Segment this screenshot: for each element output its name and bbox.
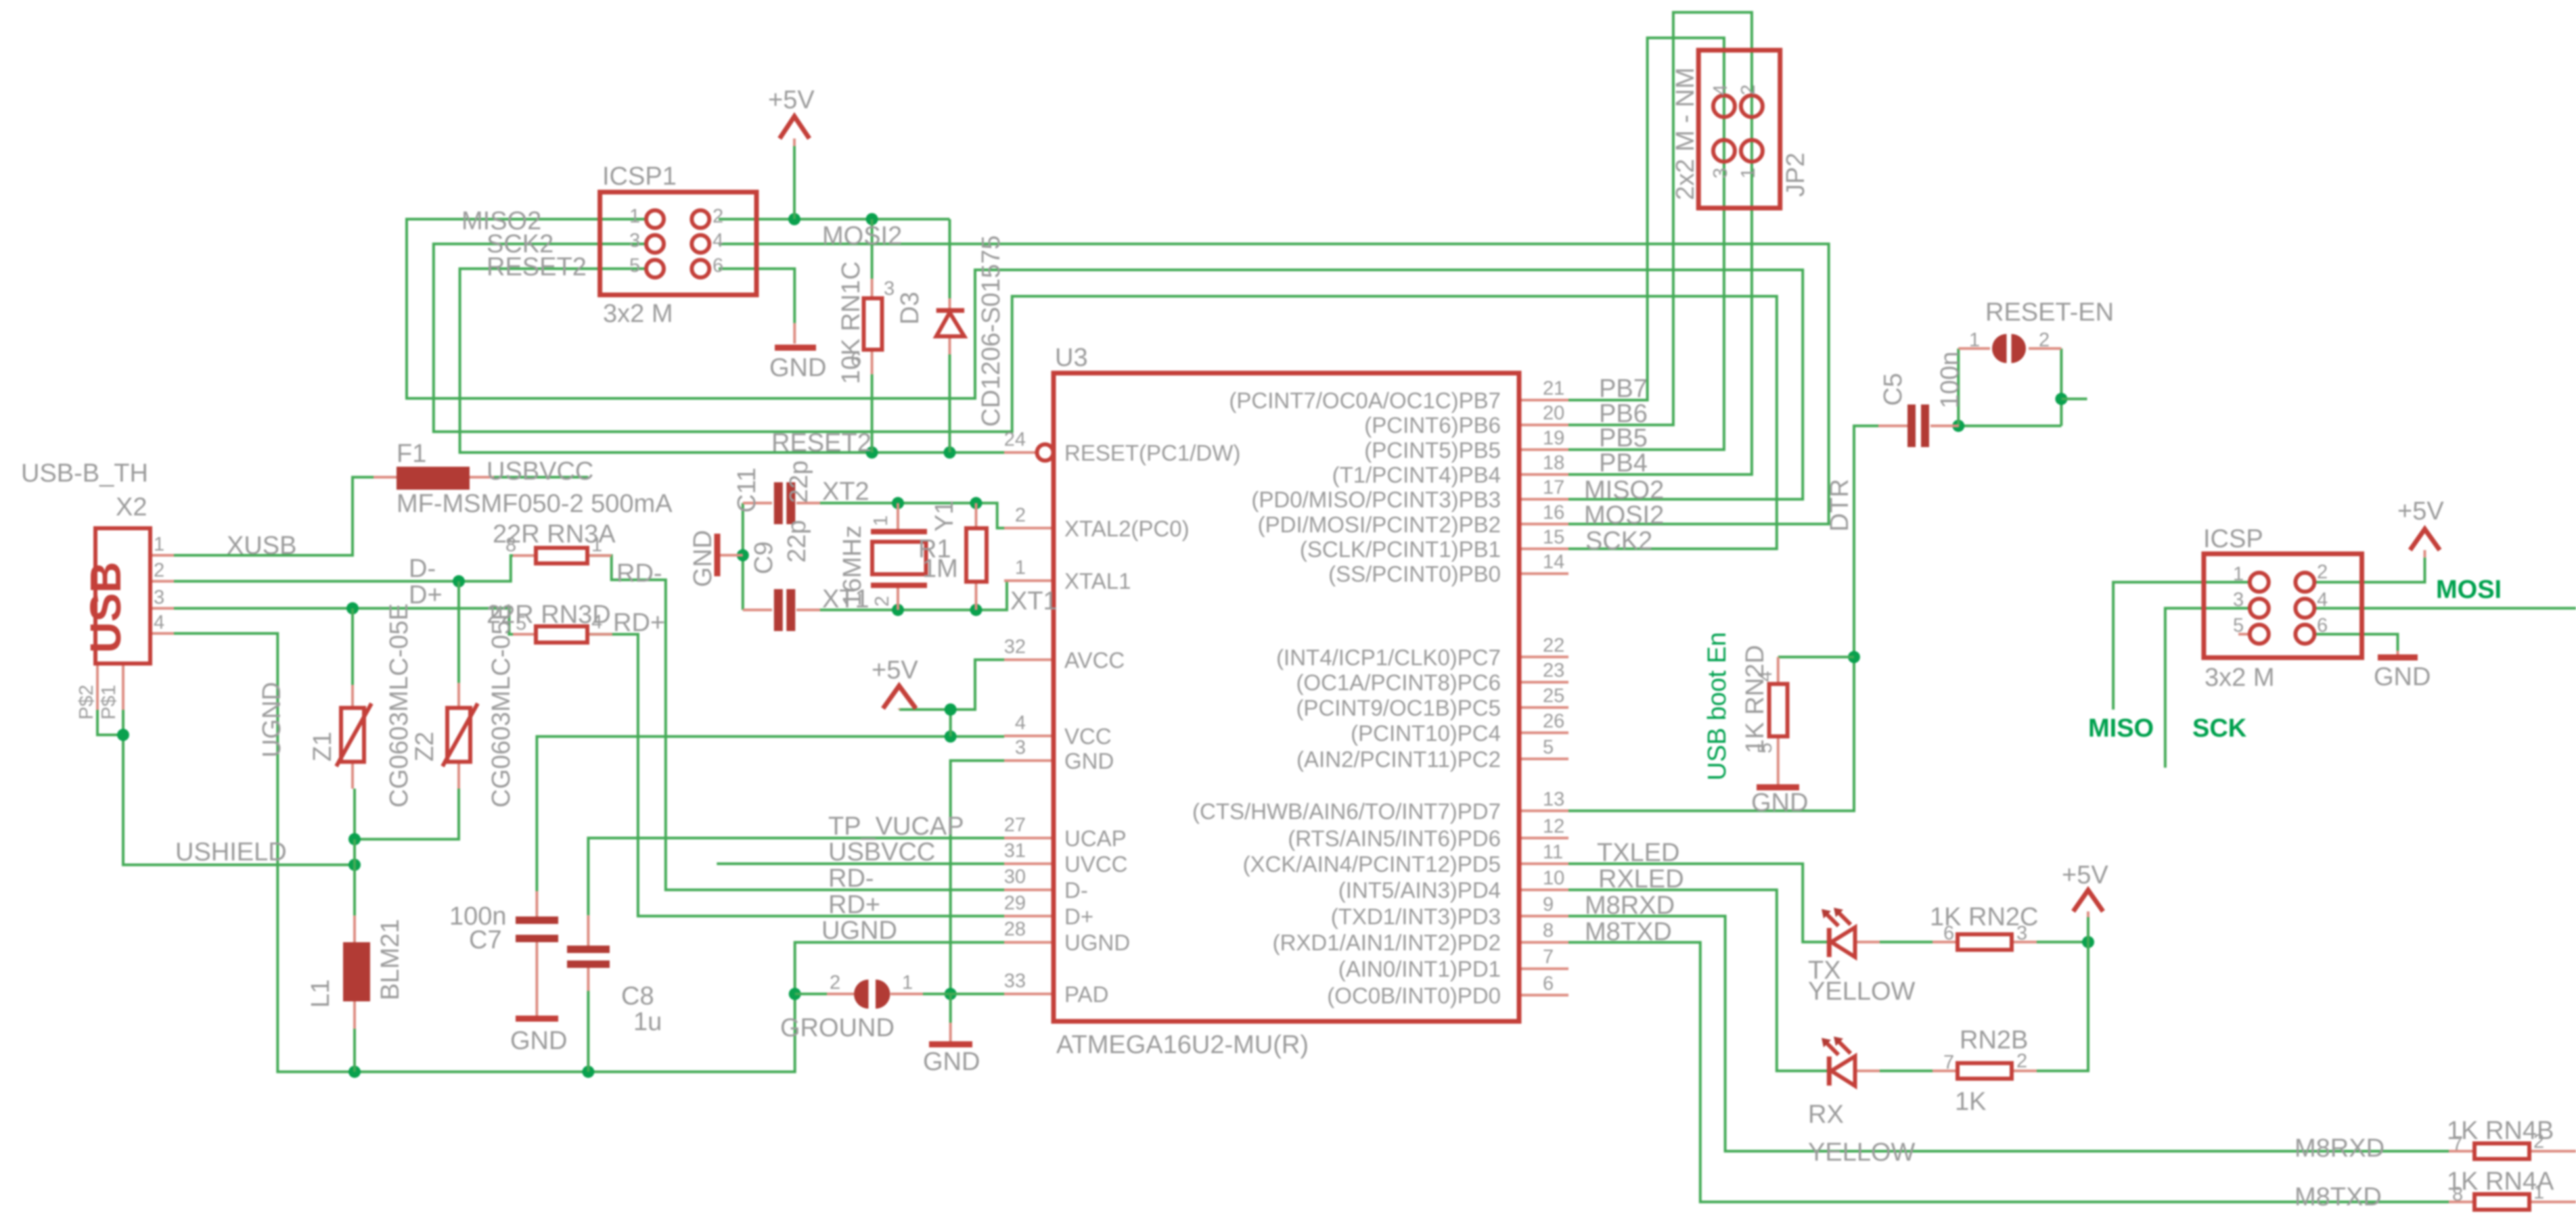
resistor RN3A pin stubs xyxy=(513,554,612,557)
crystal GND symbol stub xyxy=(719,554,743,557)
junction RESET-EN output stub xyxy=(2055,393,2067,405)
resistor RN3D body xyxy=(536,626,587,643)
resistor RN2C pin stubs xyxy=(1933,941,2037,944)
RN2D pin numbers xyxy=(1755,671,1776,753)
svg-text:RD-: RD- xyxy=(616,559,662,588)
wire DTR to RN2D xyxy=(1778,655,1854,658)
JP2 pin numbers xyxy=(1710,85,1759,179)
svg-text:XT2: XT2 xyxy=(822,478,869,506)
ICSP1 pin numbers xyxy=(629,206,723,277)
svg-text:X2: X2 xyxy=(116,493,147,521)
wire TXLED net (U3 pin11 to TX LED) xyxy=(1568,864,1827,942)
JP2 pads xyxy=(1713,95,1763,162)
svg-text:+5V: +5V xyxy=(768,86,815,114)
junction RESET2 / D3 xyxy=(944,446,956,459)
svg-text:6: 6 xyxy=(713,255,723,277)
+5V power symbol (right ICSP) xyxy=(2410,529,2440,557)
svg-text:C8: C8 xyxy=(621,982,654,1011)
RN4B pin numbers xyxy=(2452,1131,2544,1155)
svg-text:(SCLK/PCINT1)PB1: (SCLK/PCINT1)PB1 xyxy=(1300,536,1501,561)
svg-text:(AIN2/PCINT11)PC2: (AIN2/PCINT11)PC2 xyxy=(1296,747,1501,772)
svg-text:7: 7 xyxy=(1943,1052,1954,1073)
resistor RN2C body xyxy=(1958,934,2012,950)
ICSP right pin5 stub xyxy=(2238,633,2250,636)
fuse F1 body xyxy=(397,467,470,490)
svg-text:19: 19 xyxy=(1543,427,1564,449)
wire PB5 net to JP2 pin3 xyxy=(1568,106,1724,450)
wire XT1 net xyxy=(820,609,976,611)
wire MISO net at ICSP xyxy=(2113,582,2250,710)
GROUND solder jumper body xyxy=(854,979,890,1008)
junction +5V rail / VCC riser xyxy=(945,730,957,743)
wire USHIELD net xyxy=(97,710,123,735)
svg-text:GND: GND xyxy=(1064,749,1114,774)
svg-text:1: 1 xyxy=(629,206,640,227)
svg-text:CD1206-S01575: CD1206-S01575 xyxy=(977,235,1005,427)
svg-text:UCAP: UCAP xyxy=(1064,826,1127,851)
svg-text:(SS/PCINT0)PB0: (SS/PCINT0)PB0 xyxy=(1328,561,1501,586)
svg-text:D3: D3 xyxy=(896,292,924,325)
svg-text:1: 1 xyxy=(154,534,164,555)
wire PAD node to GND symbol xyxy=(949,994,952,1023)
wire ICSP1 pin6 to GND xyxy=(719,269,794,323)
svg-text:(PCINT7/OC0A/OC1C)PB7: (PCINT7/OC0A/OC1C)PB7 xyxy=(1229,388,1501,413)
svg-text:P$2: P$2 xyxy=(76,684,97,720)
svg-text:3: 3 xyxy=(1710,168,1732,179)
svg-text:(INT5/AIN3)PD4: (INT5/AIN3)PD4 xyxy=(1338,878,1501,903)
svg-text:1M: 1M xyxy=(922,555,958,583)
junction +5V symbol at ICSP1 xyxy=(788,213,800,225)
svg-text:3: 3 xyxy=(1015,737,1026,759)
svg-text:17: 17 xyxy=(1543,477,1564,498)
resistor RN3D pin stubs xyxy=(513,633,612,636)
svg-text:4: 4 xyxy=(713,230,723,252)
svg-text:+5V: +5V xyxy=(2062,861,2108,889)
junction UGND rail / C8 bottom xyxy=(582,1066,594,1078)
svg-text:1: 1 xyxy=(1015,557,1026,579)
svg-text:C5: C5 xyxy=(1879,373,1907,406)
svg-text:GND: GND xyxy=(923,1048,980,1076)
svg-text:1: 1 xyxy=(1969,329,1980,351)
diode D3 pin stubs xyxy=(949,298,951,354)
svg-text:Z2: Z2 xyxy=(411,732,439,762)
varistor Z2 pin stubs xyxy=(457,683,460,789)
IC U3 body xyxy=(1054,373,1519,1021)
wire PB7 net to JP2 pin4 xyxy=(1568,38,1724,400)
svg-text:22p: 22p xyxy=(783,520,811,563)
GND symbol at right ICSP xyxy=(2378,655,2418,661)
svg-text:(PD0/MISO/PCINT3)PB3: (PD0/MISO/PCINT3)PB3 xyxy=(1251,487,1501,512)
resistor RN1C pin stubs xyxy=(871,279,874,374)
junction DTR / RN2D xyxy=(1848,651,1860,663)
svg-text:1u: 1u xyxy=(633,1008,662,1036)
RESET-EN pin numbers xyxy=(1969,329,2050,351)
svg-text:+5V: +5V xyxy=(2397,497,2444,526)
svg-text:11: 11 xyxy=(1543,841,1563,863)
wire PB6 net to JP2 pin2 xyxy=(1568,12,1752,425)
svg-text:1: 1 xyxy=(2533,1182,2544,1203)
wire +5V at ICSP1 pin2 xyxy=(719,218,950,220)
svg-text:RD+: RD+ xyxy=(828,891,880,919)
USB X2 pin numbers xyxy=(154,534,164,634)
svg-text:RESET2: RESET2 xyxy=(771,429,872,457)
svg-text:4: 4 xyxy=(1755,671,1776,682)
svg-text:GROUND: GROUND xyxy=(780,1014,895,1042)
svg-text:ICSP: ICSP xyxy=(2203,525,2263,553)
svg-text:U3: U3 xyxy=(1055,344,1088,372)
svg-text:20: 20 xyxy=(1543,402,1564,424)
wire D3 top xyxy=(949,219,951,298)
svg-text:8: 8 xyxy=(505,534,516,556)
GROUND jumper pin stubs xyxy=(827,993,923,996)
junction UGND rail / L1 bottom xyxy=(348,1066,361,1078)
svg-text:CG0603MLC-05E: CG0603MLC-05E xyxy=(487,603,516,808)
RN2C pin numbers xyxy=(1943,923,2027,944)
wire MOSI net from ICSP pin4 xyxy=(2314,607,2576,609)
svg-text:29: 29 xyxy=(1004,892,1026,914)
wire DTR net (U3 pin13 up to C5) xyxy=(1568,426,1878,811)
GND symbol below C7 xyxy=(516,1016,558,1022)
svg-text:GND: GND xyxy=(2374,663,2431,691)
wire L1 bottom to rail xyxy=(353,1029,356,1072)
svg-text:USBVCC: USBVCC xyxy=(828,838,935,866)
RN3A pin numbers xyxy=(505,534,602,556)
ICSP header body (right) xyxy=(2204,554,2362,658)
svg-text:3: 3 xyxy=(629,230,640,252)
wire RX LED to RN2B xyxy=(1880,1069,1933,1072)
svg-text:PAD: PAD xyxy=(1064,982,1108,1007)
svg-text:4: 4 xyxy=(1710,85,1732,95)
svg-text:(OC0B/INT0)PD0: (OC0B/INT0)PD0 xyxy=(1327,983,1501,1008)
svg-text:RD+: RD+ xyxy=(613,609,665,637)
junction +5V branch xyxy=(945,703,957,716)
svg-text:6: 6 xyxy=(851,349,861,371)
svg-text:USB boot En: USB boot En xyxy=(1703,632,1732,781)
svg-text:PB4: PB4 xyxy=(1599,449,1648,478)
junction PAD / GND symbol xyxy=(945,988,957,1000)
ICSP GND symbol stub xyxy=(2397,651,2399,655)
svg-text:GND: GND xyxy=(510,1027,567,1055)
resistor RN2D body xyxy=(1769,684,1788,736)
svg-text:(XCK/AIN4/PCINT12)PD5: (XCK/AIN4/PCINT12)PD5 xyxy=(1243,852,1501,877)
RN3D pin numbers xyxy=(516,611,602,634)
RESET-EN jumper pin stubs xyxy=(1958,347,2061,350)
svg-text:4: 4 xyxy=(2317,589,2328,611)
wire +5V symbol branch to AVCC xyxy=(899,659,1004,710)
svg-text:DTR: DTR xyxy=(1826,479,1854,532)
svg-text:RESET2: RESET2 xyxy=(487,253,587,281)
svg-text:6: 6 xyxy=(1543,973,1554,994)
svg-text:(TXD1/INT3)PD3: (TXD1/INT3)PD3 xyxy=(1331,904,1501,929)
wire RESET2 net xyxy=(460,269,1004,452)
svg-text:4: 4 xyxy=(154,612,164,634)
svg-text:Z1: Z1 xyxy=(309,732,337,762)
junction C5 / RESET-EN pin1 xyxy=(1952,420,1964,432)
svg-text:USB-B_TH: USB-B_TH xyxy=(21,459,148,488)
GND symbol below RN2D xyxy=(1757,785,1799,791)
wire TP_VUCAP net (C8 top to U3 UCAP) xyxy=(588,838,1004,915)
svg-text:Y1: Y1 xyxy=(930,501,959,532)
wire SCK2 net xyxy=(434,244,1777,549)
svg-text:6: 6 xyxy=(1943,923,1954,944)
svg-text:2x2 M - NM: 2x2 M - NM xyxy=(1671,68,1700,200)
svg-text:30: 30 xyxy=(1004,866,1026,888)
ICSP1 pads xyxy=(646,210,709,277)
crystal Y1 pin stubs xyxy=(897,503,899,610)
svg-text:3: 3 xyxy=(154,586,164,608)
ICSP pads (right) xyxy=(2250,573,2315,644)
ICSP right pin numbers xyxy=(2233,561,2328,636)
wire RXLED net (U3 pin10 to RX LED) xyxy=(1568,890,1827,1071)
junction USB shell pins xyxy=(117,729,129,741)
varistor Z1 body xyxy=(336,703,371,766)
svg-text:3x2 M: 3x2 M xyxy=(603,300,673,328)
svg-text:8: 8 xyxy=(2452,1184,2463,1205)
svg-text:C7: C7 xyxy=(469,926,502,954)
wire +5V rail from C7 to U3 VCC xyxy=(537,737,1004,891)
svg-text:GND: GND xyxy=(769,354,826,382)
wire UGND net (USB pin4 down and along bottom rail) xyxy=(174,634,1004,1072)
inductor L1 body xyxy=(343,942,370,1002)
wire RN1C bottom xyxy=(871,374,874,452)
svg-text:1: 1 xyxy=(1738,168,1759,179)
svg-text:(PCINT10)PC4: (PCINT10)PC4 xyxy=(1351,720,1501,745)
U3 pin24 inversion bubble xyxy=(1037,444,1054,461)
capacitor C9 pin stubs xyxy=(743,609,820,611)
svg-text:D-: D- xyxy=(409,555,436,583)
svg-text:ICSP1: ICSP1 xyxy=(602,162,677,191)
svg-text:M8TXD: M8TXD xyxy=(1585,918,1672,946)
svg-text:+5V: +5V xyxy=(872,656,918,684)
svg-text:32: 32 xyxy=(1004,636,1026,657)
svg-text:UVCC: UVCC xyxy=(1064,852,1128,877)
USB connector X2 body xyxy=(95,528,150,664)
diode D3 body xyxy=(936,310,964,336)
svg-text:D-: D- xyxy=(1064,878,1088,903)
svg-text:2: 2 xyxy=(830,972,840,994)
wire RESET-EN pin2 riser xyxy=(2060,348,2062,425)
svg-text:27: 27 xyxy=(1004,814,1026,836)
svg-text:PB5: PB5 xyxy=(1599,424,1648,452)
svg-text:5: 5 xyxy=(629,255,640,277)
resistor RN4B body xyxy=(2475,1144,2529,1159)
wire M8TXD net (U3 pin8 to RN4A) xyxy=(1568,942,2449,1202)
svg-text:10: 10 xyxy=(1543,868,1564,889)
svg-text:TP_VUCAP: TP_VUCAP xyxy=(828,812,964,841)
svg-text:GND: GND xyxy=(689,530,717,587)
wire XT2 net xyxy=(820,502,976,505)
wire Z1/Z2 bottoms joining rail xyxy=(355,789,459,839)
svg-text:UGND: UGND xyxy=(258,682,286,758)
svg-text:22: 22 xyxy=(1543,634,1564,656)
fuse F1 pin stubs xyxy=(374,476,494,479)
capacitor C9 plates xyxy=(774,589,796,631)
junction XT1 / R1 bottom xyxy=(970,604,982,616)
wire RESET stub xyxy=(2061,398,2087,400)
svg-text:PB7: PB7 xyxy=(1599,375,1648,403)
svg-text:MOSI: MOSI xyxy=(2436,576,2502,604)
junction XT2 / R1 top xyxy=(970,497,982,509)
TX LED pin stubs xyxy=(1827,941,1880,944)
svg-text:2: 2 xyxy=(2317,561,2328,583)
wire ICSP pin6 to GND xyxy=(2314,634,2397,651)
svg-text:RXLED: RXLED xyxy=(1598,865,1684,893)
svg-text:(PCINT6)PB6: (PCINT6)PB6 xyxy=(1364,413,1501,438)
svg-text:USHIELD: USHIELD xyxy=(175,838,287,866)
resistor R1 pin stubs xyxy=(975,503,978,610)
GROUND jumper pin numbers xyxy=(830,972,913,994)
wire Z2 to D- node xyxy=(457,581,460,682)
svg-text:(PDI/MOSI/PCINT2)PB2: (PDI/MOSI/PCINT2)PB2 xyxy=(1258,512,1501,537)
svg-text:(RXD1/AIN1/INT2)PD2: (RXD1/AIN1/INT2)PD2 xyxy=(1273,930,1501,955)
+5V symbol stub at LEDs xyxy=(2087,912,2089,918)
svg-text:26: 26 xyxy=(1543,710,1564,732)
wire RD- net (RN3A to U3 pin30) xyxy=(587,555,1004,889)
svg-text:USBVCC: USBVCC xyxy=(487,457,593,486)
svg-text:(PCINT5)PB5: (PCINT5)PB5 xyxy=(1364,438,1501,463)
svg-text:100n: 100n xyxy=(1936,351,1964,409)
wire C9/C11 ground rail xyxy=(742,503,744,610)
capacitor C7 pin stubs xyxy=(535,891,538,1016)
svg-text:31: 31 xyxy=(1004,840,1026,862)
wire USBVCC stub at U3 UVCC xyxy=(717,862,1004,865)
svg-text:D+: D+ xyxy=(409,581,443,609)
svg-text:16MHz: 16MHz xyxy=(838,526,867,607)
inductor L1 pin stubs xyxy=(353,916,356,1029)
svg-text:23: 23 xyxy=(1543,660,1564,682)
capacitor C5 plates xyxy=(1907,404,1929,447)
svg-text:24: 24 xyxy=(1004,429,1026,450)
wire GND net at U3 pin3 down to PAD node xyxy=(951,761,1004,994)
svg-text:1: 1 xyxy=(591,534,602,556)
GND symbol at crystal caps xyxy=(715,534,721,576)
+5V power symbol (LEDs) xyxy=(2073,890,2103,912)
svg-text:13: 13 xyxy=(1543,789,1564,810)
svg-text:7: 7 xyxy=(2452,1133,2463,1155)
svg-text:SCK2: SCK2 xyxy=(1585,527,1652,555)
wire GROUND jumper connections / PAD xyxy=(795,993,827,996)
svg-text:SCK: SCK xyxy=(2192,714,2247,743)
svg-text:2: 2 xyxy=(1015,505,1026,526)
RX LED body xyxy=(1822,1037,1855,1086)
wire RN1C top xyxy=(871,219,874,279)
svg-text:JP2: JP2 xyxy=(1782,153,1810,197)
svg-text:4: 4 xyxy=(591,611,602,633)
svg-text:15: 15 xyxy=(1543,526,1564,548)
svg-text:8: 8 xyxy=(1543,920,1554,942)
svg-text:RD-: RD- xyxy=(828,864,874,893)
wire PB4 net to JP2 pin1 xyxy=(1568,106,1752,475)
svg-text:MOSI2: MOSI2 xyxy=(1584,501,1664,530)
svg-text:6: 6 xyxy=(2317,615,2328,636)
labels P$2 P$1 (USB shell pins) xyxy=(76,684,120,720)
wire D3 bottom xyxy=(949,354,951,452)
svg-text:16: 16 xyxy=(1543,502,1564,524)
svg-text:F1: F1 xyxy=(397,440,426,468)
capacitor C8 plates xyxy=(567,946,610,968)
wire C8 bottom to rail xyxy=(587,991,589,1072)
svg-text:(CTS/HWB/AIN6/TO/INT7)PD7: (CTS/HWB/AIN6/TO/INT7)PD7 xyxy=(1192,799,1501,824)
svg-text:(INT4/ICP1/CLK0)PC7: (INT4/ICP1/CLK0)PC7 xyxy=(1276,645,1501,670)
svg-text:9: 9 xyxy=(1543,893,1554,915)
svg-text:XUSB: XUSB xyxy=(227,532,296,560)
header JP2 body xyxy=(1698,50,1780,208)
resistor RN4A body xyxy=(2475,1194,2529,1210)
wire D+ net (USB pin3 to RN3D) xyxy=(174,608,513,634)
junction D- / Z2 xyxy=(453,575,465,587)
RN2B pin numbers xyxy=(1943,1050,2027,1073)
svg-text:D+: D+ xyxy=(1064,904,1093,929)
Y1 pin numbers xyxy=(870,515,893,607)
svg-text:C9: C9 xyxy=(750,541,778,574)
svg-text:5: 5 xyxy=(1543,737,1554,758)
capacitor C11 pin stubs xyxy=(743,502,820,505)
svg-text:33: 33 xyxy=(1004,971,1026,992)
svg-text:(OC1A/PCINT8)PC6: (OC1A/PCINT8)PC6 xyxy=(1296,670,1501,695)
junction varistor bottoms xyxy=(348,833,361,845)
svg-text:XT1: XT1 xyxy=(1010,587,1058,615)
resistor RN4B pin stubs xyxy=(2449,1150,2576,1153)
svg-text:1K RN2D: 1K RN2D xyxy=(1741,645,1769,754)
wire C5 right to RESET-EN xyxy=(1959,425,2061,427)
svg-text:VCC: VCC xyxy=(1064,724,1112,749)
GND symbol stub at PAD xyxy=(949,1023,952,1042)
ICSP1 GND stub xyxy=(793,323,796,344)
svg-text:2: 2 xyxy=(1738,85,1759,95)
wire MISO2 net xyxy=(407,219,1803,499)
USB X2 pin stubs xyxy=(97,555,174,710)
wire RESET-EN pin1 riser xyxy=(1957,348,1960,425)
svg-text:M8TXD: M8TXD xyxy=(2295,1183,2382,1211)
svg-text:XTAL1: XTAL1 xyxy=(1064,569,1131,594)
U3 right pin numbers xyxy=(1543,378,1564,995)
wire USHIELD node to L1 xyxy=(353,839,356,916)
svg-text:22p: 22p xyxy=(785,461,813,503)
svg-text:1K: 1K xyxy=(1955,1088,1986,1116)
GND symbol below ICSP1 pin6 xyxy=(775,345,816,351)
svg-text:RX: RX xyxy=(1808,1100,1844,1129)
svg-text:1: 1 xyxy=(870,515,892,526)
svg-text:(AIN0/INT1)PD1: (AIN0/INT1)PD1 xyxy=(1338,956,1501,981)
U3 right pin stubs xyxy=(1519,400,1568,996)
svg-text:18: 18 xyxy=(1543,452,1564,474)
svg-text:25: 25 xyxy=(1543,685,1564,707)
wire XUSB net (USB pin1 to fuse F1) xyxy=(174,478,374,556)
capacitor C5 pin stubs xyxy=(1878,425,1959,427)
U3 left pin names xyxy=(1064,440,1240,1007)
wire TX LED to RN2C xyxy=(1880,941,1933,944)
svg-text:XTAL2(PC0): XTAL2(PC0) xyxy=(1064,516,1190,541)
resistor RN2B body xyxy=(1958,1063,2012,1079)
varistor Z1 pin stubs xyxy=(351,685,354,789)
wire MOSI2 net (ICSP1 pin4 to U3 pin16) xyxy=(719,244,1829,524)
wire +5V node down to RN2B xyxy=(2037,942,2088,1071)
wire +5V symbol to node xyxy=(2087,917,2089,942)
junction XT1 / Y1 pin2 xyxy=(892,604,904,616)
U3 right pin names xyxy=(1192,388,1501,1008)
svg-text:YELLOW: YELLOW xyxy=(1808,1138,1916,1167)
svg-text:UGND: UGND xyxy=(821,916,897,945)
junction D+ / Z1 xyxy=(346,602,359,614)
resistor RN3A body xyxy=(536,548,587,563)
RN4A pin numbers xyxy=(2452,1182,2544,1205)
svg-text:3: 3 xyxy=(2233,589,2244,611)
svg-text:UGND: UGND xyxy=(1064,930,1130,955)
svg-text:7: 7 xyxy=(1543,946,1554,968)
wire RN2C to +5V node xyxy=(2037,941,2088,944)
svg-text:RESET-EN: RESET-EN xyxy=(1985,298,2114,327)
RN1C pin numbers xyxy=(851,278,895,371)
